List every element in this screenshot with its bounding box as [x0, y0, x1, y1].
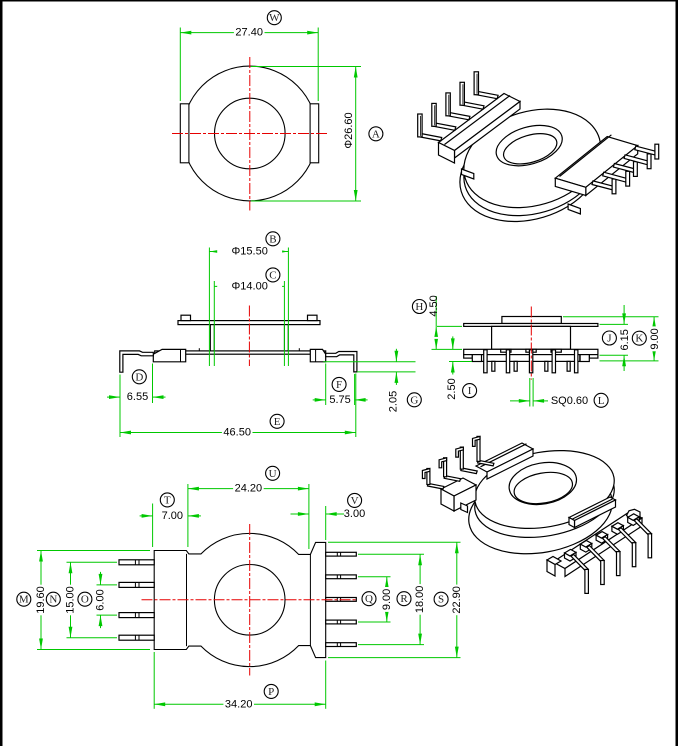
front view red centerline vertical	[249, 57, 251, 211]
svg-text:34.20: 34.20	[225, 698, 253, 710]
front view red centerline horizontal	[172, 133, 328, 135]
label H	[412, 300, 426, 314]
svg-text:V: V	[351, 495, 359, 507]
iso2 hole inner	[512, 468, 575, 508]
svg-text:R: R	[400, 593, 408, 605]
label U	[266, 466, 280, 480]
dim I 2.50	[449, 361, 472, 363]
dim P 34.20	[153, 652, 155, 709]
label F	[332, 377, 346, 391]
iso1 hole	[491, 118, 567, 173]
label J	[602, 331, 616, 345]
svg-text:46.50: 46.50	[223, 427, 251, 439]
side view right pin	[326, 352, 357, 372]
top view red centerline vertical	[249, 524, 251, 676]
iso1 foot tabs	[462, 169, 474, 179]
svg-text:5.75: 5.75	[329, 394, 350, 406]
iso1 disk	[452, 93, 613, 223]
right side view tube top	[502, 317, 561, 324]
svg-text:6.15: 6.15	[619, 329, 631, 350]
iso2 left block tab	[461, 503, 468, 513]
dim D 6.55	[119, 375, 121, 438]
label P	[264, 684, 278, 698]
svg-text:M: M	[19, 594, 29, 606]
svg-text:U: U	[269, 468, 277, 480]
right side view bottom flange	[464, 349, 598, 354]
svg-text:Φ14.00: Φ14.00	[232, 280, 268, 292]
top view block inner edge	[186, 554, 188, 646]
right side view top flange	[464, 324, 598, 327]
label O	[78, 592, 92, 606]
dim O 6.00	[97, 584, 118, 586]
side view top flange right tab	[308, 315, 318, 320]
svg-text:I: I	[468, 385, 472, 397]
dim N 15.00	[67, 561, 118, 563]
right side view left foot	[464, 355, 473, 359]
svg-text:22.90: 22.90	[451, 586, 463, 614]
svg-text:SQ0.60: SQ0.60	[551, 395, 588, 407]
dim V 3.00	[325, 506, 327, 540]
side view right pin block	[310, 349, 325, 361]
label R	[397, 592, 411, 606]
sheet border top	[0, 0, 678, 2]
label C	[266, 268, 280, 282]
svg-text:B: B	[269, 233, 276, 245]
dim W 27.40	[179, 28, 181, 102]
side view tube walls	[209, 325, 211, 351]
dim U 24.20	[308, 484, 310, 549]
side view top flange bar	[178, 321, 320, 325]
top view center circle	[214, 565, 285, 636]
svg-text:Φ26.60: Φ26.60	[343, 112, 355, 148]
svg-text:F: F	[336, 379, 342, 391]
iso1 right header slab	[555, 137, 637, 188]
svg-text:N: N	[49, 594, 57, 606]
iso2 left block	[441, 478, 476, 496]
svg-text:Φ15.50: Φ15.50	[232, 246, 268, 258]
dim B phi15.50	[208, 248, 210, 367]
dim R 18.00	[358, 553, 424, 555]
iso2 right plate	[553, 512, 642, 569]
svg-text:P: P	[268, 686, 274, 698]
side view left pin	[120, 351, 154, 372]
svg-text:3.00: 3.00	[344, 508, 365, 520]
iso1 right pins	[592, 181, 614, 190]
label S	[434, 592, 448, 606]
svg-text:G: G	[410, 394, 418, 406]
label I	[463, 384, 477, 398]
label V	[348, 493, 362, 507]
dim A phi26.60	[251, 66, 361, 68]
dim S 22.90	[328, 541, 461, 543]
dim Q 9.00	[358, 576, 391, 578]
svg-text:27.40: 27.40	[235, 27, 263, 39]
top view right pins	[326, 552, 357, 556]
right side view red centerline	[530, 307, 532, 380]
svg-text:H: H	[415, 301, 423, 313]
iso1 left header slab	[439, 94, 521, 151]
side view red centerline	[248, 306, 250, 367]
label D	[132, 370, 146, 384]
label T	[160, 493, 174, 507]
svg-text:2.05: 2.05	[388, 391, 400, 412]
dim G 2.05	[323, 361, 415, 363]
top view left pins	[119, 560, 154, 565]
svg-text:Q: Q	[365, 593, 373, 605]
side view top flange left tab	[181, 315, 191, 320]
dim H 4.50	[437, 325, 462, 327]
side view left pin block	[153, 349, 185, 361]
dim T 7.00	[152, 504, 154, 548]
iso1 left pins	[420, 134, 442, 141]
front view right flange rect	[310, 104, 319, 163]
side view bottom flange bar	[155, 351, 326, 354]
label E	[270, 414, 284, 428]
dim J 6.15	[600, 323, 629, 325]
svg-text:K: K	[635, 333, 643, 345]
dim L SQ0.60	[529, 378, 531, 407]
svg-text:O: O	[81, 594, 89, 606]
svg-text:D: D	[135, 371, 143, 383]
svg-text:9.00: 9.00	[649, 328, 661, 349]
iso1 bottom flange rim	[448, 105, 612, 238]
label L	[594, 393, 608, 407]
right side view slots	[501, 349, 511, 352]
label W	[267, 11, 281, 25]
svg-text:W: W	[269, 12, 280, 24]
svg-text:6.55: 6.55	[127, 391, 148, 403]
svg-text:24.20: 24.20	[235, 483, 263, 495]
iso2 right plate end horn	[627, 509, 641, 522]
dim E 46.50	[355, 374, 357, 438]
iso2 bottom flange rim	[462, 458, 619, 565]
iso2 left pins	[428, 483, 444, 489]
iso2 hole	[506, 457, 580, 509]
svg-text:L: L	[598, 395, 605, 407]
sheet border left	[0, 0, 3, 746]
svg-text:9.00: 9.00	[381, 589, 393, 610]
svg-text:T: T	[164, 494, 171, 506]
right side view right foot	[589, 355, 598, 359]
dim C phi14.00	[213, 281, 215, 366]
svg-text:19.60: 19.60	[35, 586, 47, 614]
iso2 left header rail	[476, 443, 533, 472]
svg-text:C: C	[269, 269, 276, 281]
svg-text:7.00: 7.00	[162, 510, 183, 522]
iso2 right plate end foot	[547, 557, 561, 565]
front view outer circle	[182, 66, 317, 201]
svg-text:E: E	[274, 416, 281, 428]
label Q	[362, 592, 376, 606]
dim M 19.60	[37, 550, 150, 552]
dim K 9.00	[563, 316, 659, 318]
sheet border right	[676, 0, 678, 746]
right side view body	[492, 326, 571, 349]
iso2 right pins	[565, 549, 577, 556]
top view plate inner edge	[309, 554, 311, 645]
top view red centerline horizontal	[142, 599, 358, 601]
svg-text:2.50: 2.50	[446, 378, 458, 399]
label G	[407, 393, 421, 407]
right side view front pins	[484, 350, 487, 373]
label A	[369, 127, 383, 141]
iso1 hole inner	[500, 128, 560, 170]
svg-text:A: A	[372, 128, 380, 140]
iso2 disk	[469, 440, 621, 538]
svg-text:18.00: 18.00	[414, 586, 426, 614]
label M	[17, 592, 31, 606]
svg-text:6.00: 6.00	[95, 589, 107, 610]
right side view base strip	[480, 355, 580, 362]
svg-text:J: J	[607, 333, 612, 345]
label K	[632, 331, 646, 345]
svg-text:4.50: 4.50	[428, 295, 440, 316]
front view left flange rect	[180, 104, 189, 163]
front view inner circle	[215, 98, 286, 169]
iso2 right plate rail	[569, 497, 616, 521]
right side view back pins	[492, 361, 495, 371]
label B	[266, 232, 280, 246]
svg-text:15.00: 15.00	[65, 586, 77, 614]
svg-text:S: S	[438, 594, 444, 606]
top view body outline	[154, 533, 326, 666]
label N	[46, 592, 60, 606]
dim F 5.75	[325, 364, 327, 406]
